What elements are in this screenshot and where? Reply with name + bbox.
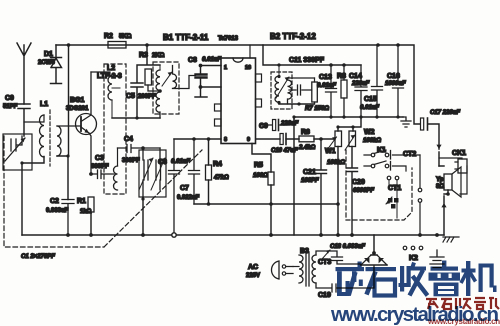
- capacitor C0: [3, 95, 30, 136]
- diode D3: [377, 255, 387, 265]
- trimmer CT1: [386, 176, 401, 218]
- watermark url blue: [331, 303, 500, 326]
- trimmer CT2: [403, 145, 442, 166]
- char yin: [429, 261, 461, 297]
- dashed gang link: [346, 150, 412, 220]
- resistor R5: [252, 144, 274, 236]
- resistor R8: [337, 65, 347, 118]
- wire audio return: [194, 203, 338, 205]
- capacitor C9 electrolytic: [259, 117, 299, 131]
- switch K2: [403, 246, 423, 262]
- capacitor C17 electrolytic: [421, 110, 461, 130]
- trimmer CT3: [318, 250, 331, 266]
- ground: [401, 117, 411, 127]
- variable capacitor C1-2 gang: [139, 146, 166, 197]
- wire L1 bottom to tank: [22, 157, 44, 236]
- diode D2: [361, 255, 371, 265]
- IF transformer B2: [271, 65, 292, 109]
- capacitor C3: [89, 155, 114, 179]
- wire AF line: [256, 138, 280, 140]
- IC U1 Ta7613: [215, 45, 262, 144]
- char kuang: [336, 262, 365, 297]
- capacitor C16: [385, 45, 406, 117]
- AC plug: [246, 261, 293, 279]
- resistor R4: [206, 139, 230, 204]
- capacitor C20: [347, 168, 375, 235]
- wire IF ground line: [294, 116, 403, 118]
- wire bias feed: [68, 45, 70, 156]
- transistor BG1: [66, 72, 97, 174]
- capacitor C14: [349, 65, 370, 118]
- IF transformer B1: [153, 62, 196, 118]
- wire gang to bus: [142, 197, 144, 235]
- inductor L1 with core: [24, 101, 61, 166]
- wire L1 secondary to base: [57, 125, 81, 127]
- capacitor C7: [177, 139, 200, 204]
- jack CK1: [439, 150, 467, 194]
- capacitor C5: [126, 45, 160, 118]
- wire K1 out: [393, 155, 421, 171]
- watermark url red small: [428, 317, 500, 326]
- oscillator coil L2 box: [97, 64, 126, 194]
- capacitor C18: [316, 244, 365, 264]
- wire B2 top link: [288, 77, 315, 79]
- wire B2 bottom link: [279, 103, 315, 105]
- resistor R6: [298, 129, 316, 151]
- capacitor C21: [301, 139, 327, 235]
- wire rectifier node: [361, 235, 387, 265]
- potentiometer W2: [345, 127, 381, 168]
- speaker Y: [436, 166, 461, 235]
- dashed gang outline C1: [4, 136, 202, 247]
- resistor R7: [305, 78, 329, 112]
- capacitor C2: [46, 198, 74, 235]
- L2 winding 1: [108, 76, 120, 118]
- variable capacitor C1-1: [3, 134, 32, 170]
- wire AGC line: [112, 117, 160, 119]
- capacitor C10 electrolytic: [271, 134, 298, 155]
- jack break contacts: [419, 155, 421, 235]
- potentiometer W1: [325, 127, 345, 204]
- ground chassis right: [443, 237, 459, 242]
- battery GB: [430, 250, 444, 268]
- wire W1 to bus: [337, 204, 339, 235]
- wire pot tap: [338, 117, 361, 127]
- capacitor C15: [360, 45, 383, 118]
- capacitor C6: [158, 139, 190, 233]
- wire det line: [174, 138, 221, 140]
- wire C9 ground drop: [293, 117, 295, 235]
- capacitor C8: [188, 57, 221, 97]
- capacitor C13: [317, 65, 337, 118]
- resistor R3: [139, 52, 165, 91]
- wire supply hook to C17: [399, 45, 439, 149]
- capacitor C12: [289, 85, 312, 95]
- capacitor C4: [118, 136, 161, 164]
- wire B2 feed: [263, 45, 361, 65]
- capacitor C19: [316, 266, 374, 299]
- emitter resistor R1: [77, 172, 94, 235]
- wire collector to L2: [91, 72, 110, 76]
- wire top supply bus: [56, 44, 399, 46]
- resistor R2: [104, 33, 132, 48]
- char shou: [399, 263, 428, 296]
- wire L1 secondary bottom to C2: [57, 156, 69, 200]
- switch K1: [364, 147, 391, 170]
- char ji: [461, 261, 497, 296]
- L2 winding 2: [114, 148, 118, 190]
- bottom ground bus: [22, 234, 444, 236]
- diode D1: [38, 45, 62, 84]
- antenna: [17, 43, 31, 104]
- transformer B3: [293, 248, 316, 286]
- char shi: [366, 267, 397, 296]
